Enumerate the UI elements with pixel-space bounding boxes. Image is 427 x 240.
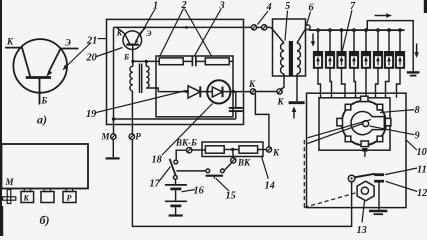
terminal box middle (b): [44, 189, 50, 192]
svg-text:12: 12: [417, 188, 427, 199]
battery GB link: [175, 190, 177, 201]
svg-text:6: 6: [309, 3, 315, 14]
cap electrode bottom-left: [345, 136, 351, 142]
cap electrode left: [337, 118, 343, 125]
svg-text:Б: Б: [41, 96, 48, 106]
resistor block 14 case: [202, 142, 263, 157]
rotor body keyhole: [351, 112, 384, 135]
svg-text:Э: Э: [146, 29, 151, 38]
svg-text:21: 21: [86, 36, 97, 47]
capacitor C1: [191, 57, 193, 67]
coil core: [289, 41, 293, 76]
transistor a) emitter lead E with arrow: [49, 49, 79, 73]
wire primary bottom to K terminal: [280, 74, 284, 90]
ground right bracket: [407, 71, 420, 73]
svg-text:13: 13: [357, 225, 367, 236]
distributor outer case box: [307, 93, 407, 207]
node on rail: [185, 26, 188, 29]
svg-text:Э: Э: [65, 38, 71, 48]
wire R3 to R4: [224, 149, 239, 151]
svg-text:14: 14: [265, 181, 275, 192]
callout 13 leader: [362, 201, 365, 223]
terminal P screw: [129, 134, 134, 139]
rotor circle: [342, 101, 386, 145]
wire R2 to right edge: [229, 60, 233, 62]
wire rail into primary: [271, 27, 284, 43]
callout 16 leader: [181, 190, 195, 192]
coil ground bar: [289, 101, 305, 104]
callout 12 leader: [386, 181, 418, 191]
breaker contact lower: [374, 180, 384, 183]
callout 9 leader: [370, 126, 415, 135]
spark plug FV6: [374, 28, 382, 98]
svg-text:8: 8: [415, 105, 420, 116]
callout 3 leader to capacitor: [195, 9, 222, 56]
terminal K screw (block): [266, 147, 271, 152]
breaker contact upper: [374, 173, 384, 176]
wire primary bottom to P terminal and breaker: [132, 91, 351, 226]
HV bus wire: [309, 29, 405, 31]
breaker contact ground lead: [378, 183, 380, 210]
node at diode anode: [186, 90, 189, 93]
wire M terminal to ground: [112, 139, 114, 157]
callout 4 leader: [258, 11, 269, 25]
spark plug FV8: [396, 28, 404, 98]
page edge top-right corner mark: [424, 0, 427, 13]
mechanical link dashed vertical: [303, 140, 305, 208]
svg-text:Б: Б: [123, 53, 129, 62]
callout 11 leader: [385, 168, 417, 175]
spark plug FV4: [350, 28, 358, 98]
switch 15 contact left: [206, 169, 210, 173]
svg-text:19: 19: [86, 109, 96, 120]
svg-text:9: 9: [415, 131, 420, 142]
wire VK-B to resistor block: [192, 149, 206, 151]
transistor a) collector lead K: [5, 48, 31, 78]
callout 7 leader: [342, 10, 352, 52]
current arrow right above bracket: [375, 15, 389, 17]
wire between K terminals: [256, 91, 277, 93]
zener VD2 symbol: [212, 87, 222, 97]
wire R1 to C: [183, 60, 192, 62]
wire R4 to K terminal: [258, 149, 267, 151]
callout 6 leader: [306, 12, 310, 26]
diode VD1: [188, 86, 200, 98]
page left edge bar: [0, 0, 2, 236]
mechanical link dashed diagonal: [304, 193, 356, 208]
resistor R2: [205, 58, 229, 65]
callout 5 leader: [285, 11, 288, 41]
transistor U base lead: [132, 45, 134, 62]
svg-text:К: К: [116, 29, 123, 38]
page edge lower thicker segment: [0, 206, 3, 236]
ignition switch 17 contact bottom: [173, 176, 177, 180]
terminal box P (b): [66, 189, 72, 192]
breaker terminal square: [362, 148, 367, 152]
wire switch to battery: [175, 179, 177, 185]
ignition switch 17 blade: [170, 159, 176, 176]
callout 15 leader: [216, 178, 229, 191]
terminal K screw (unit): [250, 89, 255, 94]
wire M node to capacitor bottom: [114, 118, 236, 120]
breaker ground: [369, 210, 387, 212]
transistor U emitter lead with arrow: [136, 27, 146, 41]
wire secondary bottom to ground: [296, 74, 298, 101]
callout 21 tick to box: [98, 38, 107, 40]
breaker lever pivot: [348, 175, 355, 182]
rotor shaft circle: [363, 121, 369, 127]
battery GB cell 2: [165, 200, 187, 202]
svg-text:16: 16: [194, 186, 205, 197]
terminal screw on rail 1: [251, 25, 256, 30]
transistor U in box circle: [123, 31, 142, 50]
cap electrode top: [361, 96, 368, 101]
HV terminal: [305, 25, 310, 30]
current arrow down right side: [416, 44, 418, 55]
svg-text:К: К: [23, 194, 30, 203]
terminal screw on rail 2: [262, 25, 267, 30]
callout 1 leader: [140, 9, 156, 36]
svg-text:Р: Р: [135, 132, 141, 142]
wire C to R2: [196, 60, 205, 62]
svg-text:ВК: ВК: [237, 158, 251, 168]
node VK tap: [231, 148, 234, 151]
transistor switch unit outer box: [107, 19, 244, 124]
transformer T primary winding: [130, 61, 133, 91]
breaker terminal lead: [364, 152, 366, 157]
callout 19 leader to diode: [95, 91, 186, 113]
transistor a) base lead B: [39, 78, 41, 105]
svg-text:К: К: [272, 148, 280, 158]
callout 20 leader: [97, 48, 123, 57]
wire secondary to diode line: [146, 88, 158, 92]
spark plug FV2: [326, 28, 334, 98]
cap electrode top-right: [377, 104, 383, 110]
top bracket wire: [367, 21, 413, 72]
callout 14 leader: [262, 157, 269, 179]
callout 10 leader: [406, 140, 417, 150]
resistor R3: [205, 146, 224, 153]
transformer T core: [139, 64, 141, 94]
switch 15 bar: [206, 175, 223, 177]
battery GB bottom lead: [175, 207, 177, 215]
svg-text:18: 18: [152, 155, 162, 166]
terminal VK screw: [231, 158, 236, 163]
relay module b) case: [2, 144, 89, 189]
current arrow up at coil ground: [293, 110, 295, 119]
resistor R4: [239, 146, 258, 153]
svg-text:5: 5: [285, 1, 290, 12]
svg-text:М: М: [5, 177, 15, 187]
svg-text:Р: Р: [67, 194, 72, 203]
svg-text:3: 3: [219, 1, 225, 12]
resistor R1: [159, 58, 183, 65]
svg-text:1: 1: [153, 1, 158, 12]
collector wire down to M terminal: [113, 27, 115, 133]
zener VD2 circle: [207, 80, 230, 103]
svg-text:4: 4: [266, 2, 272, 13]
svg-text:К: К: [6, 37, 14, 47]
emitter supply rail wire: [114, 26, 271, 28]
callout 2 leader to R2: [185, 9, 212, 57]
coil secondary winding: [297, 43, 300, 74]
transistor U collector lead: [117, 27, 130, 44]
battery GB cell 1: [165, 184, 187, 186]
transistor a) base bar: [26, 76, 51, 79]
callout 21 leader arrow to transistor a: [65, 44, 91, 69]
cap electrode right: [385, 118, 391, 125]
node M junction: [112, 117, 116, 121]
main diode wire: [158, 91, 250, 93]
coil primary winding: [281, 43, 284, 74]
callout 2 leader to R1: [160, 9, 184, 56]
svg-text:20: 20: [86, 53, 97, 64]
cam hexagon 13: [357, 181, 374, 201]
callout 8 leader: [380, 110, 414, 113]
terminal M screw: [111, 134, 116, 139]
svg-text:К: К: [248, 79, 256, 89]
cap electrode top-left: [345, 104, 351, 110]
bolt terminal M (b): [7, 190, 11, 204]
spark plug FV5: [362, 28, 370, 98]
wire switch 15 left: [176, 170, 206, 172]
svg-text:15: 15: [226, 191, 236, 202]
node right coil top: [145, 60, 148, 63]
cap electrode bottom: [361, 141, 368, 147]
ignition coil case: [273, 19, 306, 76]
transformer T secondary winding: [146, 61, 149, 88]
callout 18 leader to zener: [162, 104, 213, 156]
svg-text:а): а): [37, 113, 47, 127]
svg-text:7: 7: [350, 1, 356, 12]
ground under M: [106, 157, 120, 159]
svg-text:10: 10: [417, 147, 427, 158]
terminal box K (b): [24, 189, 30, 192]
wire to rotor lower: [308, 124, 364, 144]
svg-text:11: 11: [417, 165, 427, 176]
spark plug FV1: [314, 28, 322, 98]
base node dot: [131, 60, 134, 63]
svg-text:М: М: [101, 132, 111, 142]
terminal VK-B screw: [187, 148, 192, 153]
wire K to resistor block 14: [255, 94, 269, 147]
ignition switch 17 contact top: [174, 160, 178, 164]
callout 17 leader: [159, 167, 171, 183]
cap electrode bottom-right: [377, 136, 383, 142]
wire switch 15 right to VK: [224, 163, 231, 171]
inner component box: [156, 56, 233, 117]
node at capacitor tap: [232, 90, 235, 93]
svg-text:б): б): [40, 213, 50, 227]
current arrow down at bus start: [312, 34, 314, 44]
distributor cap box: [319, 98, 390, 150]
wire VK tap down: [232, 150, 235, 158]
transistor symbol a) circle: [13, 39, 67, 93]
terminal K screw (coil): [277, 89, 282, 94]
svg-text:К: К: [277, 97, 285, 107]
svg-text:17: 17: [150, 179, 161, 190]
wire secondary to HV terminal: [297, 29, 306, 43]
wire to rotor upper: [308, 120, 372, 138]
battery ground bar: [169, 214, 183, 216]
spark plug FV3: [337, 28, 345, 98]
capacitor C2: [235, 92, 237, 108]
spark plug FV7: [385, 28, 393, 98]
switch 15 contact right: [221, 169, 225, 173]
wire VK-B to switch: [176, 150, 186, 160]
breaker lever arm: [355, 174, 375, 178]
base wire to resistor row: [133, 60, 159, 62]
transistor U base bar: [126, 43, 139, 45]
